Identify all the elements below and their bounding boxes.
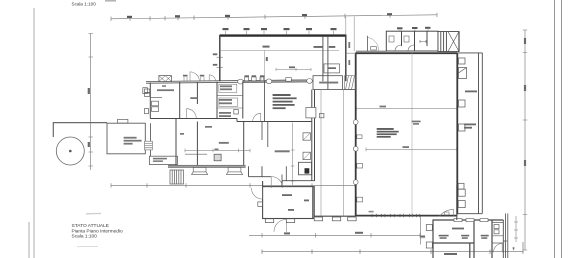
right vertical dimension line [523,30,527,250]
wall between ingresso and hall [315,215,356,217]
hall text block [377,128,399,138]
wing lower-left walls to lower block [249,166,272,176]
door frame box on column wall [306,108,316,118]
counter line left row2 [185,153,207,155]
left vertical dimension line [89,34,94,171]
X window fixture on wall [159,76,172,82]
vestibule wall above hall [356,50,386,52]
toilet fixtures [389,36,426,51]
top dimension line [111,13,437,21]
dim labels above top wall [223,27,431,30]
door arc at hall bottom right [439,209,453,216]
top big room: thick top wall [220,34,347,36]
sala ristorante room label [275,150,290,152]
annex label [124,137,142,145]
shaft double wall [323,37,328,90]
big hall outline [355,53,457,216]
hatched ramp right of cassa box [345,76,356,90]
wall right of stairs [458,32,460,52]
wing top exterior wall (double line) [146,80,312,83]
row1 label boxes [219,84,238,106]
radiator left of ingresso [258,202,263,207]
corridor verticals between sala and hall [321,90,343,216]
interior dim line in cucina [185,149,250,153]
il vano dim text [412,121,421,125]
radiators outside wing left wall [426,225,432,249]
wing-left dim tick [420,237,425,239]
wing row2 walls [176,119,268,167]
small box left of wing start [143,88,148,94]
room1 inner divider [150,97,162,99]
hall interior dimension line lower [366,147,457,151]
sala ristorante vertical dim line [291,123,295,186]
middle column wall (between wing and hall) [312,90,315,182]
left annex block (Deposito piano intermedio) [107,123,145,154]
garden wall L-shape [53,123,107,137]
150 label on interior line [263,46,270,48]
hall interior dimension line upper [357,107,457,111]
dark fixture box row2 [214,154,221,161]
wing right column fixtures [492,223,503,253]
hatched wall band segment [243,80,311,83]
svg-text:Scala 1:100: Scala 1:100 [72,2,97,7]
svg-text:Scala 1:100: Scala 1:100 [72,234,98,240]
dim ticks right of wing [514,216,518,242]
dark stove box [305,168,310,173]
window under door [371,47,377,50]
tree trunk dot [69,150,72,153]
small window boxes on wall [245,77,292,81]
rotated dim text right of top room wall [348,42,350,65]
page frame right double lines [555,0,562,258]
hall interior joint line [411,53,413,216]
faint smudge above title block [86,212,101,214]
hatched box on annex right wall [145,141,153,150]
vestibule left line [353,17,355,52]
entry door right of top room [368,36,379,51]
faint pencil fragment bottom-left [77,245,98,248]
column ellipses in wall [238,79,313,85]
notch on annex top [118,119,128,123]
row1 small boxes [145,89,239,114]
wing labels [439,228,489,255]
door arc row1/row2 [253,113,261,121]
door arcs around ingresso [251,177,286,232]
ingresso label [282,194,309,211]
bottom dimension line (mid) [111,183,355,187]
page frame left vertical line [33,8,35,258]
forno box [324,64,340,73]
Passaggio label [314,46,336,48]
page frame second left line (bottom) [28,222,30,258]
top room right wall [345,35,347,81]
top dimension tick labels [127,13,392,18]
stairs top right [438,32,459,52]
cucina label [180,126,229,144]
tree circle [56,137,84,165]
toilets block [386,31,438,51]
T marks right of wing [503,240,515,250]
row1 labels [157,85,232,117]
bottom long dimension line [262,242,523,254]
thin hall-top continuation to top room [346,52,356,54]
tiny level label bottom-left of hall [369,211,374,213]
tiny dim ticks above wall [184,77,264,81]
column circles on hall left wall [353,120,358,185]
level markers on left wall [217,57,224,67]
row2 bottom hatched wall band [168,165,246,167]
top room interior vertical line [264,50,266,81]
staircase hatch [170,170,184,184]
sala ristorante text block (left) [273,94,297,109]
bottom dimension line (lower) [249,233,420,237]
bay window 1 below band [191,168,207,175]
bottom-left text block [72,223,124,240]
door swing arcs on wall top [190,72,216,81]
row1 small room cluster walls [217,95,243,108]
interior dim arrows [276,68,311,71]
counter wall above ingresso [282,166,315,180]
door arc left rooms row1/row2 [187,109,197,119]
cut-off text at very top [105,0,116,2]
ticks above top wall [226,29,429,35]
window boxes on wing top wall [454,219,488,222]
intercapedine box [149,156,177,164]
window tick pairs along hall bottom wall [372,214,420,217]
bay window 2 below band [226,168,242,175]
radiators inside hall left wall [357,135,363,202]
windows row below ingresso block and hall [265,217,356,223]
cassa box bottom line to hall [342,89,355,91]
radiators on column wall [303,113,324,159]
balcone label [464,91,477,129]
wing row1 walls [150,81,311,122]
fixture box right of courtyard [299,162,312,175]
title text top-left: Scala 1:100 [72,2,97,7]
top room interior horizontal line [220,49,339,51]
DX label box in doorway [444,212,449,215]
radiators on hall right wall [458,58,466,189]
radiators below hall right wall [457,185,465,220]
cassa ristorazione box [313,76,342,90]
right balcony strip [457,53,482,214]
svg-text:STATO ATTUALE: STATO ATTUALE [72,223,110,229]
top room left wall [219,35,221,81]
bottom right wing [433,214,508,258]
thin exterior line left of bottom wing [420,216,422,245]
ingresso block [263,181,315,219]
